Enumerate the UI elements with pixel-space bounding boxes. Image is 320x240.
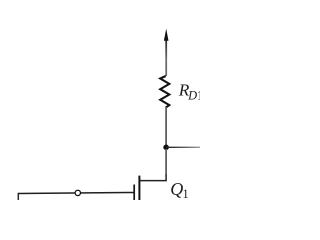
- gate wire left corner down: [17, 193, 19, 200]
- wire resistor to drain node: [165, 107, 167, 145]
- gate wire: [18, 193, 133, 194]
- wire node to right edge: [166, 146, 200, 148]
- wire drain corner: [139, 175, 166, 181]
- transistor Q1 gate bar: [133, 185, 135, 201]
- svg-text:RD1: RD1: [178, 81, 200, 103]
- svg-text:Q1: Q1: [170, 179, 188, 200]
- input terminal circle: [75, 190, 80, 195]
- resistor RD1: [160, 76, 169, 108]
- transistor Q1 channel bar: [138, 176, 140, 200]
- wire node down toward drain: [165, 149, 167, 175]
- VDD supply arrow: [164, 29, 169, 76]
- node junction dot: [163, 145, 169, 151]
